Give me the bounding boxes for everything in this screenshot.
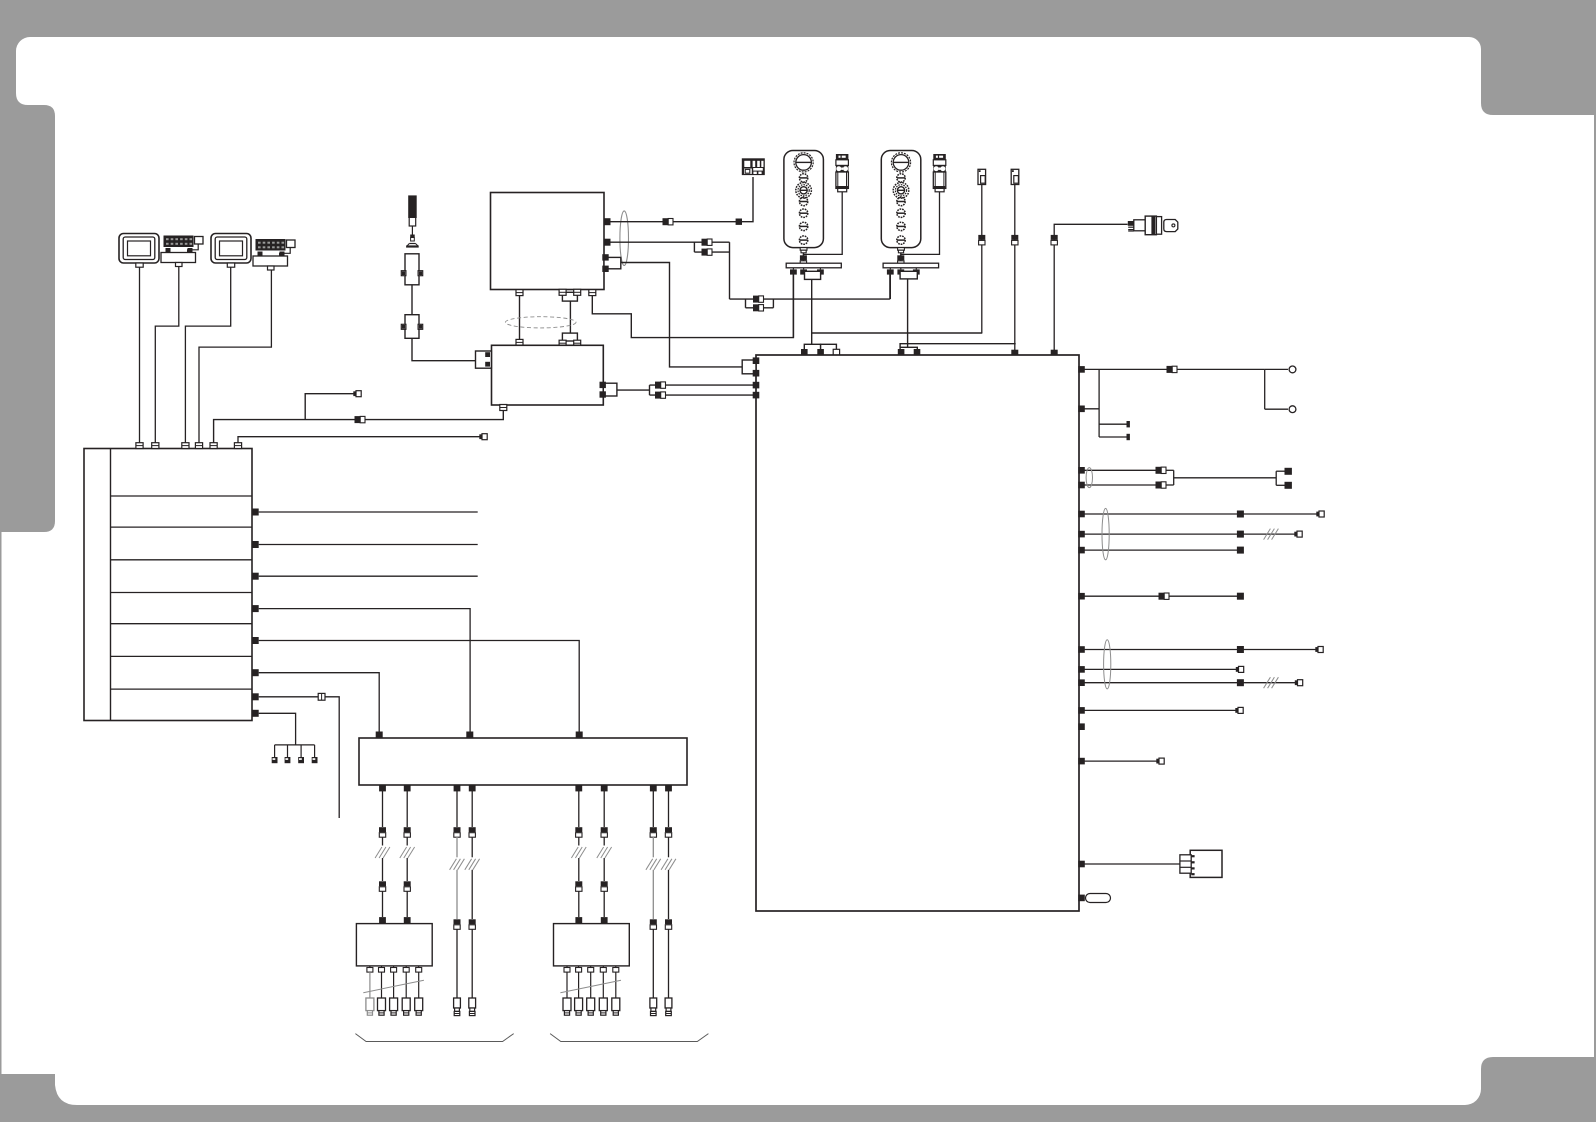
inline connector bbox=[665, 919, 672, 924]
diagonal lead mark 1 bbox=[363, 980, 424, 993]
wire to coil bbox=[603, 891, 605, 917]
coupler box bbox=[559, 333, 581, 346]
inline connector remote2 bbox=[897, 255, 904, 260]
connector coil top bbox=[575, 917, 582, 924]
wire main switch 1 bbox=[803, 192, 842, 255]
cdi top connectors bbox=[376, 732, 583, 739]
wire to coil bbox=[382, 891, 384, 917]
accessory socket B bbox=[1011, 169, 1019, 184]
ferrite bead bbox=[736, 219, 742, 225]
inline connector bbox=[650, 919, 657, 924]
wire to coil bbox=[382, 858, 384, 881]
inline connector bbox=[601, 827, 608, 832]
wire to plug bbox=[652, 929, 654, 998]
cylinder group bracket 1 bbox=[355, 1034, 513, 1042]
connector socketB harness bbox=[1011, 350, 1018, 357]
connector g2d bbox=[1078, 707, 1085, 714]
connector oil bbox=[1078, 758, 1085, 765]
hash marks bbox=[597, 847, 604, 858]
wire remote1 stem bbox=[802, 253, 804, 263]
connector batt2 bbox=[1078, 482, 1085, 489]
battery cable pair bbox=[1079, 470, 1285, 485]
hash marks bbox=[661, 859, 668, 870]
wire hub row8 to leads bbox=[259, 713, 296, 745]
inline connector batt2 bbox=[1156, 482, 1162, 489]
inline connector bbox=[379, 881, 386, 886]
wire hub row6 to coil driver bbox=[259, 673, 380, 732]
inline connector bbox=[454, 919, 461, 924]
main switch panel 2 bbox=[933, 154, 946, 192]
junction box left connector block bbox=[476, 351, 492, 368]
spark plug cap bbox=[469, 998, 476, 1016]
cdi bottom connectors bbox=[379, 785, 672, 792]
wire to coil bbox=[578, 891, 580, 917]
junction g1c bbox=[1237, 547, 1244, 554]
coil plug stubs bbox=[367, 966, 422, 972]
cable loop A bbox=[620, 211, 629, 266]
wire tab to coupler bbox=[569, 301, 571, 333]
inline connector bbox=[404, 881, 411, 886]
wire to coil bbox=[603, 858, 605, 881]
cable loop B bbox=[1086, 468, 1092, 488]
inline connector D bbox=[655, 382, 661, 389]
cable coil (dashed loop) bbox=[505, 317, 576, 328]
spark plug cap bbox=[650, 998, 657, 1016]
hash marks g1 bbox=[1264, 529, 1271, 540]
ignition coil unit 2 bbox=[554, 924, 630, 966]
wire coil lead bbox=[471, 791, 473, 827]
junction box on harness top 2 bbox=[898, 347, 921, 355]
wire hub to end terminal bbox=[238, 437, 480, 443]
connector g2c bbox=[1078, 679, 1085, 686]
wire oil sensor bbox=[1079, 760, 1157, 762]
inline connector F bbox=[318, 693, 325, 700]
ground lead comb bbox=[272, 745, 318, 763]
junction boxes on harness top 1 bbox=[801, 344, 840, 355]
wire hub row2 bbox=[259, 544, 478, 546]
dash panel connector block bbox=[742, 158, 765, 175]
connector g1b bbox=[1078, 531, 1085, 538]
inline connector bbox=[379, 827, 386, 832]
coil2 spark plugs bbox=[563, 998, 620, 1015]
ignition key switch bbox=[1128, 216, 1178, 235]
remote control unit 1 bbox=[784, 151, 824, 253]
inline connector A bbox=[663, 218, 669, 225]
remote 1 bar connectors bbox=[790, 268, 824, 275]
terminal g1a bbox=[1316, 512, 1319, 517]
wire to plug bbox=[652, 870, 654, 919]
inline connector bbox=[665, 827, 672, 832]
wire coil lead bbox=[668, 791, 670, 827]
ignition coil unit 1 bbox=[356, 924, 432, 966]
battery terminal plus bbox=[1285, 468, 1292, 475]
hub top connectors bbox=[136, 443, 242, 449]
inline connector key switch bbox=[1051, 235, 1058, 240]
hash marks bbox=[571, 847, 578, 858]
connector coil top bbox=[404, 917, 411, 924]
cable loop C bbox=[1102, 508, 1109, 559]
inline connector bbox=[404, 827, 411, 832]
hash marks bbox=[400, 847, 407, 858]
harness output group 2 bbox=[1079, 650, 1316, 711]
wire socket B bbox=[1014, 185, 1016, 353]
fuse holder bbox=[1078, 894, 1110, 903]
wire to plug bbox=[471, 929, 473, 998]
connector spare bbox=[1078, 723, 1085, 730]
wire hub row3 bbox=[259, 575, 478, 577]
inline connector bbox=[469, 827, 476, 832]
gauge meter 2 (multifunction display) bbox=[211, 234, 251, 268]
wire crosslink B bbox=[900, 344, 1016, 348]
inline connector socketB bbox=[1011, 235, 1018, 240]
stub terminal 2 bbox=[1127, 434, 1130, 440]
remote 2 mounting bar bbox=[883, 263, 939, 268]
harness left connector block bbox=[742, 357, 759, 376]
wire interface2 to hub bbox=[199, 270, 271, 443]
inline connector bbox=[575, 881, 582, 886]
inline connector remote1 bbox=[800, 255, 807, 260]
connector harness pair bbox=[753, 382, 760, 399]
wire coil lead bbox=[578, 791, 580, 827]
wire gauge2 to hub bbox=[185, 267, 230, 443]
gauge meter 1 (multifunction display) bbox=[119, 234, 159, 268]
sensor connector block 1 bbox=[401, 254, 422, 285]
wire to plug bbox=[456, 929, 458, 998]
wire key switch to harness bbox=[1054, 224, 1127, 352]
junction g2a bbox=[1237, 646, 1244, 653]
connector coil top bbox=[379, 917, 386, 924]
connector junction bottom bbox=[500, 405, 507, 411]
inline connector bbox=[650, 827, 657, 832]
terminal g2d bbox=[1235, 708, 1238, 713]
coil driver box (CDI) bbox=[359, 738, 687, 785]
wire hub row1 bbox=[259, 511, 478, 513]
hash marks bbox=[375, 847, 382, 858]
main engine harness box bbox=[756, 355, 1079, 911]
junction g1a bbox=[1237, 511, 1244, 518]
wire remote2 coupler down bbox=[907, 279, 909, 347]
terminal end bbox=[353, 391, 356, 396]
wire ECU pin2 to remote 2 bbox=[607, 242, 890, 308]
connector g2b bbox=[1078, 666, 1085, 673]
wire coil lead bbox=[382, 791, 384, 827]
terminal end B bbox=[479, 434, 482, 439]
remote control unit 2 bbox=[881, 151, 921, 253]
wire to coil bbox=[578, 858, 580, 881]
terminal g2c bbox=[1295, 680, 1298, 685]
instrument hub box bbox=[84, 449, 252, 721]
connector trim1 bbox=[1078, 366, 1085, 373]
remote 1 mounting bar bbox=[786, 263, 841, 268]
ring terminal 1 bbox=[1289, 366, 1296, 373]
remote 2 bar connectors bbox=[887, 268, 920, 275]
interface unit 2 bbox=[253, 239, 295, 270]
wire coil lead bbox=[603, 791, 605, 827]
connector g2a bbox=[1078, 646, 1085, 653]
spark plug cap bbox=[665, 998, 672, 1016]
junction g2c bbox=[1237, 679, 1244, 686]
wire remote1 to harness bbox=[792, 275, 794, 338]
connector on ECU pin2 bbox=[604, 239, 611, 246]
wire to coil bbox=[406, 858, 408, 881]
wire remote2 conn1 bbox=[889, 275, 891, 300]
cable loop D bbox=[1104, 640, 1111, 689]
wire branch to terminal bbox=[305, 394, 354, 420]
wire to plug bbox=[668, 929, 670, 998]
connector ECU pin3 bbox=[589, 290, 596, 296]
inline connector bbox=[575, 827, 582, 832]
inline connector E bbox=[655, 392, 661, 399]
wire starter relay bbox=[1079, 863, 1180, 865]
coil2 plug leads bbox=[567, 972, 616, 998]
wire hub row5 to coil driver bbox=[259, 641, 580, 733]
connector g1d bbox=[1078, 593, 1085, 600]
engine control unit box bbox=[491, 193, 605, 290]
connector g1a bbox=[1078, 511, 1085, 518]
wire ECU tab to main harness bbox=[621, 263, 742, 367]
junction box right connector block bbox=[600, 382, 617, 398]
wire to plug bbox=[668, 870, 670, 919]
wire coil lead bbox=[406, 791, 408, 827]
wire to plug bbox=[456, 870, 458, 919]
wire ECU pin3 to remote 1 bbox=[592, 273, 793, 338]
main switch panel 1 bbox=[836, 154, 849, 192]
wire main switch 2 bbox=[901, 192, 940, 255]
wire to plug bbox=[471, 870, 473, 919]
hub output connectors bbox=[252, 509, 259, 717]
connector batt1 bbox=[1078, 467, 1085, 474]
terminal g2b bbox=[1236, 667, 1239, 672]
spark plug cap bbox=[454, 998, 461, 1016]
inline connector batt1 bbox=[1156, 467, 1162, 474]
wire junction to hub bbox=[214, 410, 504, 443]
connector junction top pin bbox=[516, 339, 523, 345]
wire gauge1 to hub bbox=[139, 267, 141, 443]
cylinder group bracket 2 bbox=[550, 1034, 708, 1042]
wire hub row4 to coil driver bbox=[259, 609, 470, 732]
ECU side tab connector bbox=[602, 254, 621, 272]
wire ECU to dash connector bbox=[607, 177, 753, 222]
inline connector pair C bbox=[753, 296, 764, 312]
wire sensor blocks bbox=[411, 285, 413, 315]
inline connector g1d bbox=[1159, 593, 1165, 600]
wire socket A bbox=[981, 185, 983, 334]
hash marks bbox=[465, 859, 472, 870]
inline connector bbox=[469, 919, 476, 924]
terminal oil bbox=[1156, 759, 1159, 764]
accessory socket A bbox=[978, 169, 986, 184]
wire hub row7 bbox=[259, 697, 340, 818]
wire crosslink A bbox=[812, 332, 983, 334]
coil1 plug leads bbox=[370, 972, 419, 998]
wire trim feed bbox=[1079, 369, 1288, 437]
terminal g2a bbox=[1315, 647, 1318, 652]
junction g1d bbox=[1237, 593, 1244, 600]
speed sensor (pitot) bbox=[406, 196, 419, 247]
coil1 spark plugs bbox=[366, 998, 423, 1015]
inline connector bbox=[454, 827, 461, 832]
connector trim2 bbox=[1078, 406, 1085, 413]
ring terminal 2 bbox=[1289, 406, 1296, 413]
inline connector pair B bbox=[702, 239, 713, 256]
stub terminal 1 bbox=[1127, 421, 1130, 427]
wire remote2 stem bbox=[900, 253, 902, 263]
battery terminal minus bbox=[1285, 482, 1292, 489]
junction g1b bbox=[1237, 531, 1244, 538]
ECU bottom tab connector bbox=[559, 289, 581, 301]
coil plug stubs bbox=[564, 966, 619, 972]
hash marks bbox=[646, 859, 653, 870]
hash marks g2 bbox=[1264, 677, 1271, 688]
connector coil top bbox=[601, 917, 608, 924]
wire ECU to junction box bbox=[519, 296, 521, 341]
diagonal lead mark 2 bbox=[560, 980, 621, 993]
starter relay bbox=[1180, 850, 1222, 877]
sensor connector block 2 bbox=[401, 315, 422, 339]
wire coil lead bbox=[652, 791, 654, 827]
connector ECU bottom pin bbox=[516, 290, 523, 296]
wire junction to main harness pair bbox=[617, 385, 753, 395]
harness output group 1 bbox=[1079, 514, 1317, 596]
connector key harness bbox=[1051, 350, 1058, 357]
wire sensor to junction box bbox=[412, 338, 476, 360]
inline connector bbox=[601, 881, 608, 886]
inline connector G bbox=[355, 416, 361, 423]
connector g1c bbox=[1078, 547, 1085, 554]
remote 2 coupler box bbox=[900, 271, 917, 279]
connector relay feed bbox=[1078, 861, 1085, 868]
connector on ECU pin1 bbox=[604, 218, 611, 225]
wire remote1 coupler down bbox=[811, 279, 813, 344]
terminal g1b bbox=[1294, 532, 1297, 537]
inline connector trim bbox=[1167, 366, 1173, 373]
wire to coil bbox=[406, 891, 408, 917]
inline connector socketA bbox=[978, 235, 985, 240]
interface unit 1 bbox=[161, 236, 203, 267]
wire interface1 to hub bbox=[155, 267, 179, 444]
hash marks bbox=[450, 859, 457, 870]
junction box bbox=[492, 345, 604, 405]
remote 1 coupler box bbox=[805, 271, 821, 279]
wire coil lead bbox=[456, 791, 458, 827]
